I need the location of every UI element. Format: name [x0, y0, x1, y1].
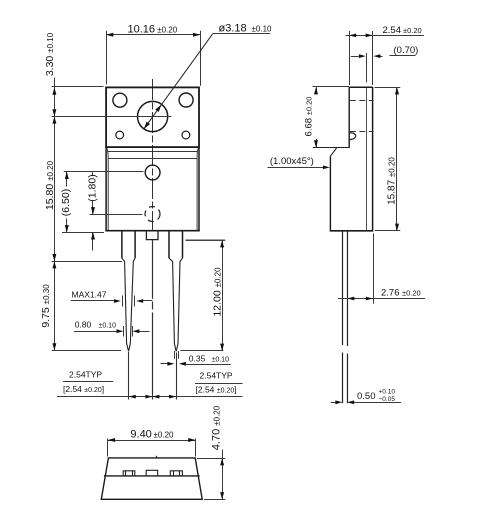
- body bottom extension line (left): [62, 232, 104, 234]
- bottom view lead bump left: [123, 471, 135, 476]
- right lead: [169, 231, 183, 351]
- svg-text:2.76: 2.76: [381, 287, 400, 298]
- front view tab outline: [106, 87, 199, 147]
- side view rib line: [366, 88, 368, 230]
- svg-text:4.70 ±0.20: 4.70 ±0.20: [211, 405, 223, 450]
- svg-text:(6.50): (6.50): [60, 189, 72, 216]
- svg-text:12.00 ±0.20: 12.00 ±0.20: [212, 267, 224, 317]
- front body inner draft lines: [107, 148, 199, 230]
- dimension (6.50): [60, 172, 144, 233]
- tab small hole top-right: [179, 93, 193, 107]
- label (1.00x45) chamfer: [268, 156, 330, 169]
- dimension 0.80 +-0.10: [74, 320, 150, 337]
- dimension 9.75 +-0.30 (lead length): [40, 261, 121, 350]
- dimension 15.87 +-0.20 (side height): [375, 87, 401, 231]
- front view center line: [152, 79, 154, 231]
- svg-text:2.54TYP: 2.54TYP: [69, 370, 102, 380]
- lead tip extension line and dimension 0.35 +-0.10: [161, 351, 231, 366]
- svg-text:(1.80): (1.80): [87, 174, 99, 201]
- svg-text:3.30 ±0.10: 3.30 ±0.10: [44, 32, 56, 76]
- svg-text:±0.10: ±0.10: [252, 25, 273, 34]
- svg-text:15.87 ±0.20: 15.87 ±0.20: [387, 157, 398, 205]
- dashed circle in body: [145, 207, 160, 222]
- svg-text:ø3.18: ø3.18: [219, 23, 247, 35]
- dimension 2.76 +-0.20: [338, 234, 425, 304]
- side view hidden hole lines: [350, 101, 372, 132]
- lead pitch chain dimension line: [57, 395, 243, 399]
- dimension 10.16 +-0.20 (tab width): [106, 23, 200, 85]
- side view lead: [343, 232, 348, 404]
- svg-text:(0.70): (0.70): [394, 45, 419, 56]
- bottom view lead bump right: [170, 471, 182, 476]
- dimension 12.00 +-0.20 (right lead length): [180, 240, 225, 351]
- dimension 4.70 +-0.20: [197, 405, 225, 499]
- svg-text:0.50: 0.50: [357, 391, 376, 402]
- dimension 3.30 +-0.10 (top edge to hole center): [44, 32, 104, 116]
- hole horizontal center line: [52, 116, 172, 118]
- svg-text:±0.20: ±0.20: [403, 26, 422, 35]
- svg-text:9.40: 9.40: [130, 428, 151, 440]
- svg-text:15.80 ±0.20: 15.80 ±0.20: [44, 160, 56, 210]
- svg-text:±0.20: ±0.20: [157, 25, 178, 34]
- dimension diameter 3.18 leader: [144, 23, 272, 129]
- svg-text:10.16: 10.16: [128, 23, 156, 35]
- small circle in body: [145, 165, 160, 180]
- bottom view outline: [101, 456, 202, 500]
- svg-text:MAX1.47: MAX1.47: [72, 290, 107, 300]
- center lead center line: [152, 240, 154, 400]
- dimension (0.70): [351, 45, 419, 82]
- left lead center line below tip: [128, 352, 130, 400]
- svg-text:±0.10: ±0.10: [212, 357, 230, 364]
- tab small hole bottom-right: [182, 131, 190, 139]
- left lead: [122, 231, 135, 351]
- svg-text:±0.20: ±0.20: [154, 430, 175, 439]
- svg-text:6.68 ±0.20: 6.68 ±0.20: [304, 97, 315, 137]
- mounting hole (big circle): [138, 101, 168, 131]
- dimension (1.80): [87, 172, 143, 250]
- center lead stub: [146, 231, 158, 240]
- svg-text:9.75 ±0.30: 9.75 ±0.30: [40, 284, 52, 328]
- right lead center line below tip: [176, 353, 178, 400]
- svg-text:2.54: 2.54: [383, 25, 402, 36]
- label 2.54TYP left: [63, 370, 113, 394]
- dimension 6.68 +-0.20: [304, 87, 350, 148]
- svg-text:0.80: 0.80: [75, 320, 92, 330]
- bottom view lead bump middle: [146, 470, 158, 475]
- dimension MAX1.47: [71, 290, 153, 307]
- svg-text:+0.10: +0.10: [379, 388, 396, 395]
- dimension 9.40 +-0.20: [108, 428, 196, 456]
- svg-text:(1.00x45°): (1.00x45°): [270, 156, 314, 167]
- svg-text:±0.10: ±0.10: [99, 323, 117, 330]
- svg-text:±0.20: ±0.20: [402, 288, 421, 297]
- side view countersink profile: [350, 133, 356, 140]
- svg-text:2.54TYP: 2.54TYP: [200, 371, 233, 381]
- svg-text:0.35: 0.35: [189, 354, 206, 364]
- dimension 2.54 +-0.20 (side top): [346, 25, 424, 85]
- left dimension column line: [54, 78, 56, 351]
- dimension 0.50 +0.10 -0.05 (lead thickness): [331, 388, 401, 404]
- label 2.54TYP right: [195, 371, 243, 395]
- svg-text:−0.05: −0.05: [379, 396, 396, 403]
- tab small hole bottom-left: [116, 131, 124, 139]
- front body outline: [105, 147, 199, 231]
- side view body: [313, 87, 374, 231]
- dimension 15.80 +-0.20 (hole center to lead shoulder): [44, 116, 122, 261]
- tab small hole top-left: [113, 93, 127, 107]
